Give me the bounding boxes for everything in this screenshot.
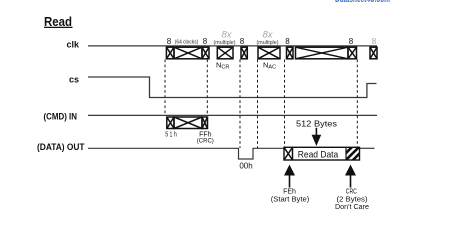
svg-text:CRC: CRC (346, 189, 357, 196)
svg-text:Datasheet4U.com: Datasheet4U.com (335, 0, 390, 5)
wire DATA OUT after data block (360, 147, 375, 149)
arrow up FEh start byte (284, 165, 295, 176)
svg-text:(CRC): (CRC) (197, 138, 214, 144)
svg-text:5 1 h: 5 1 h (165, 132, 177, 139)
dashed line x=357.3 (356, 60, 358, 147)
svg-text:(CMD) IN: (CMD) IN (44, 111, 78, 121)
svg-text:Don't Care: Don't Care (335, 204, 369, 211)
CRC hatched box (334, 142, 371, 165)
wire cs (88, 77, 377, 98)
svg-text:(multiple): (multiple) (257, 40, 279, 46)
dashed line x=240 (239, 60, 241, 149)
Read Data outer box (284, 147, 360, 160)
clk don't-care box A3 small (202, 47, 209, 59)
dashed line x=257.5 (257, 60, 259, 149)
CMD don't-care box wide (51h command) (174, 117, 202, 129)
Read Data start-byte crossed box (284, 147, 293, 160)
wire DATA OUT with 00h dip (88, 148, 284, 159)
clk don't-care box C1 wide (NAC multiple) (258, 47, 280, 59)
clk don't-care box A1 small (166, 47, 174, 59)
svg-text:8: 8 (203, 37, 208, 46)
dashed line x=284.5 (284, 60, 286, 147)
svg-text:8: 8 (240, 37, 245, 46)
clk don't-care box A2 wide (64 clocks) (174, 47, 202, 59)
arrow down to Read Data (315, 128, 317, 136)
dashed line x=207 (206, 60, 208, 116)
title underline (44, 26, 73, 28)
svg-text:512 Bytes: 512 Bytes (296, 118, 337, 128)
wire clk baseline (88, 45, 377, 47)
svg-text:(Start Byte): (Start Byte) (271, 196, 310, 203)
clk don't-care box B2 small (241, 47, 247, 59)
svg-text:clk: clk (66, 39, 80, 49)
CMD don't-care box small (FFh CRC) (202, 117, 208, 129)
clk don't-care box D1 wide (data transfer) (296, 47, 349, 59)
wire CMD IN baseline (88, 114, 377, 116)
svg-text:(DATA) OUT: (DATA) OUT (37, 142, 85, 152)
clk don't-care box E small (far right) (370, 47, 377, 59)
svg-text:8: 8 (372, 37, 377, 46)
dashed line x=165 (164, 60, 166, 116)
svg-text:(multiple): (multiple) (214, 40, 236, 46)
svg-text:00h: 00h (239, 162, 252, 171)
svg-text:cs: cs (69, 75, 79, 85)
clk don't-care box D2 small (348, 47, 357, 59)
svg-text:FEh: FEh (283, 189, 296, 196)
svg-text:8: 8 (167, 37, 172, 46)
clk don't-care box B1 wide (NCR multiple) (217, 47, 233, 59)
svg-text:8: 8 (349, 37, 354, 46)
svg-text:(64 clocks): (64 clocks) (175, 39, 199, 45)
CMD don't-care box small (cmd start) (167, 117, 174, 129)
clk don't-care box C2 small (287, 47, 294, 59)
svg-text:8: 8 (285, 37, 290, 46)
svg-text:Read Data: Read Data (298, 149, 339, 160)
arrow up CRC (345, 165, 356, 176)
svg-text:(2 Bytes): (2 Bytes) (337, 196, 368, 203)
svg-text:Read: Read (44, 14, 72, 29)
